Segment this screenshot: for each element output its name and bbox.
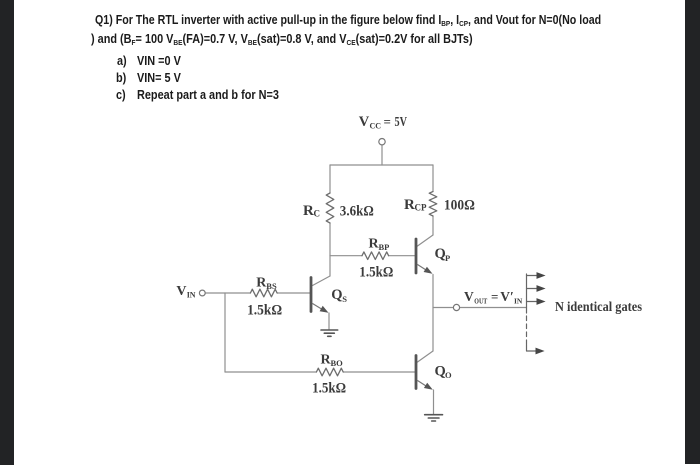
svg-text:P: P bbox=[445, 253, 450, 263]
svg-text:=: = bbox=[384, 114, 391, 129]
svg-text:1.5kΩ: 1.5kΩ bbox=[359, 265, 393, 281]
svg-text:100Ω: 100Ω bbox=[444, 198, 475, 214]
svg-text:BO: BO bbox=[331, 358, 344, 368]
svg-text:BS: BS bbox=[266, 281, 277, 291]
svg-text:1.5kΩ: 1.5kΩ bbox=[247, 303, 282, 319]
svg-text:C: C bbox=[314, 209, 321, 219]
svg-text:BP: BP bbox=[379, 242, 390, 252]
svg-text:O: O bbox=[445, 370, 452, 380]
svg-text:IN: IN bbox=[514, 297, 523, 306]
svg-text:3.6kΩ: 3.6kΩ bbox=[340, 204, 374, 220]
svg-text:OUT: OUT bbox=[474, 297, 487, 306]
svg-text:=: = bbox=[491, 289, 498, 304]
svg-text:V′: V′ bbox=[500, 289, 514, 304]
svg-text:S: S bbox=[342, 294, 347, 304]
svg-text:R: R bbox=[303, 203, 314, 219]
svg-text:R: R bbox=[404, 197, 415, 213]
svg-text:CP: CP bbox=[415, 203, 427, 213]
svg-text:V: V bbox=[176, 284, 186, 299]
svg-text:1.5kΩ: 1.5kΩ bbox=[312, 381, 346, 397]
svg-text:N identical gates: N identical gates bbox=[555, 300, 642, 315]
svg-text:IN: IN bbox=[187, 291, 196, 300]
svg-text:Q: Q bbox=[331, 287, 342, 303]
svg-text:V: V bbox=[359, 114, 370, 130]
svg-text:CC: CC bbox=[370, 122, 382, 131]
svg-text:5V: 5V bbox=[395, 114, 408, 129]
svg-text:V: V bbox=[464, 289, 474, 304]
